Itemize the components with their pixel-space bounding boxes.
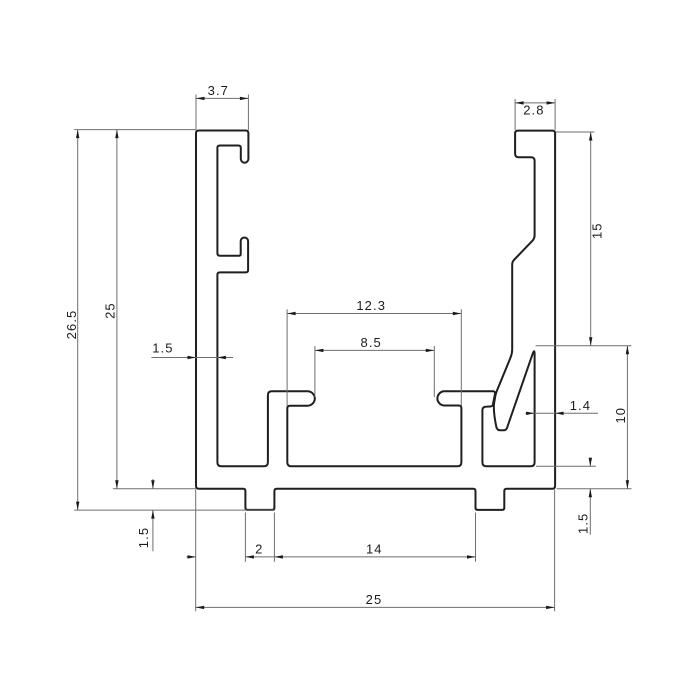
- dim 12.3: [287, 298, 461, 405]
- dim 2.8 top-right: [515, 99, 555, 130]
- svg-text:1.5: 1.5: [152, 341, 173, 356]
- dim 1.4 right wall thickness: [525, 398, 598, 415]
- svg-text:2: 2: [255, 542, 263, 557]
- dim 2 bottom: [245, 513, 274, 562]
- dim 10 right: [557, 346, 632, 489]
- svg-text:26.5: 26.5: [64, 310, 79, 340]
- dim 25 bottom: [196, 490, 555, 612]
- dim 3.7 top-left: [196, 83, 248, 130]
- svg-text:2.8: 2.8: [523, 103, 544, 118]
- floating arrow at left bottom extension: [187, 555, 197, 558]
- svg-text:15: 15: [590, 222, 605, 239]
- dim 1.5 right base thickness: [536, 458, 596, 535]
- svg-text:12.3: 12.3: [356, 298, 386, 313]
- dim 14 bottom: [274, 513, 475, 562]
- svg-text:14: 14: [366, 542, 383, 557]
- svg-text:25: 25: [103, 302, 118, 319]
- svg-text:3.7: 3.7: [208, 83, 229, 98]
- aluminium profile cross-section outline: [196, 131, 555, 510]
- svg-text:1.4: 1.4: [570, 398, 591, 413]
- dim 1.5 left middle wall thickness: [151, 341, 233, 360]
- dim 8.5: [315, 335, 434, 397]
- svg-text:10: 10: [613, 407, 628, 424]
- dim 26.5 far left: [64, 130, 275, 511]
- svg-text:25: 25: [366, 592, 383, 607]
- dim 25 left: [103, 130, 197, 489]
- svg-text:8.5: 8.5: [361, 335, 382, 350]
- dim 1.5 left feet height: [136, 479, 155, 551]
- dim 15 right: [536, 132, 632, 346]
- svg-text:1.5: 1.5: [576, 513, 591, 534]
- svg-text:1.5: 1.5: [136, 527, 151, 548]
